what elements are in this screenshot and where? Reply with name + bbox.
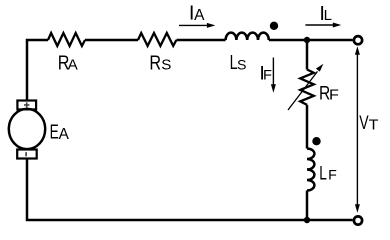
terminal: bottom (open circle) — [354, 216, 362, 224]
arrow IA — [179, 23, 215, 28]
brush: bottom rectangle — [17, 150, 37, 159]
svg-text:F: F — [329, 87, 339, 103]
inductor LS — [226, 33, 269, 40]
inductor LF — [307, 149, 314, 191]
svg-text:L: L — [319, 162, 327, 184]
svg-text:S: S — [161, 57, 171, 74]
wire: RS to LS — [176, 39, 225, 42]
plus mark — [24, 102, 29, 107]
label RF — [319, 82, 330, 104]
arrow IL — [305, 23, 341, 28]
wire: RF to LF — [306, 105, 309, 149]
svg-text:L: L — [324, 7, 332, 24]
wire: RA to RS — [85, 39, 138, 42]
terminal: top (open circle) — [354, 36, 362, 44]
minus mark — [25, 152, 27, 156]
wire: LF to bottom wire — [306, 191, 309, 221]
node: bottom junction — [304, 217, 310, 223]
svg-text:T: T — [369, 117, 379, 133]
wire: bottom rail — [27, 159, 353, 220]
resistor RS — [138, 33, 176, 46]
svg-text:F: F — [263, 68, 272, 84]
svg-text:A: A — [68, 56, 79, 73]
resistor RF (variable) — [300, 70, 314, 105]
label RS — [149, 51, 161, 74]
svg-text:E: E — [50, 120, 59, 143]
wire: LS to node and to top terminal — [269, 39, 353, 42]
arrow VT (double-headed) — [355, 46, 360, 213]
machine armature circle EA — [9, 109, 45, 149]
svg-text:F: F — [328, 168, 337, 184]
svg-text:A: A — [59, 126, 70, 143]
brush: top rectangle — [17, 101, 36, 110]
svg-text:R: R — [149, 51, 161, 74]
svg-text:A: A — [194, 7, 205, 24]
wire: left vertical + top wire to RA — [27, 40, 48, 100]
label IA — [189, 3, 195, 25]
label LF — [319, 162, 327, 184]
label VT — [359, 112, 369, 134]
polarity dot (LS) — [270, 22, 278, 30]
arrow through RF — [288, 64, 323, 110]
label IF — [259, 62, 264, 84]
node: top junction — [304, 37, 310, 43]
wire: field branch down to RF — [306, 40, 309, 70]
svg-text:S: S — [237, 58, 246, 74]
polarity dot (LF) — [312, 137, 320, 145]
label LS — [230, 51, 238, 74]
label IL — [319, 3, 325, 25]
arrow IF — [271, 58, 276, 93]
label EA — [50, 120, 59, 143]
label RA — [58, 51, 70, 74]
resistor RA — [48, 33, 85, 46]
